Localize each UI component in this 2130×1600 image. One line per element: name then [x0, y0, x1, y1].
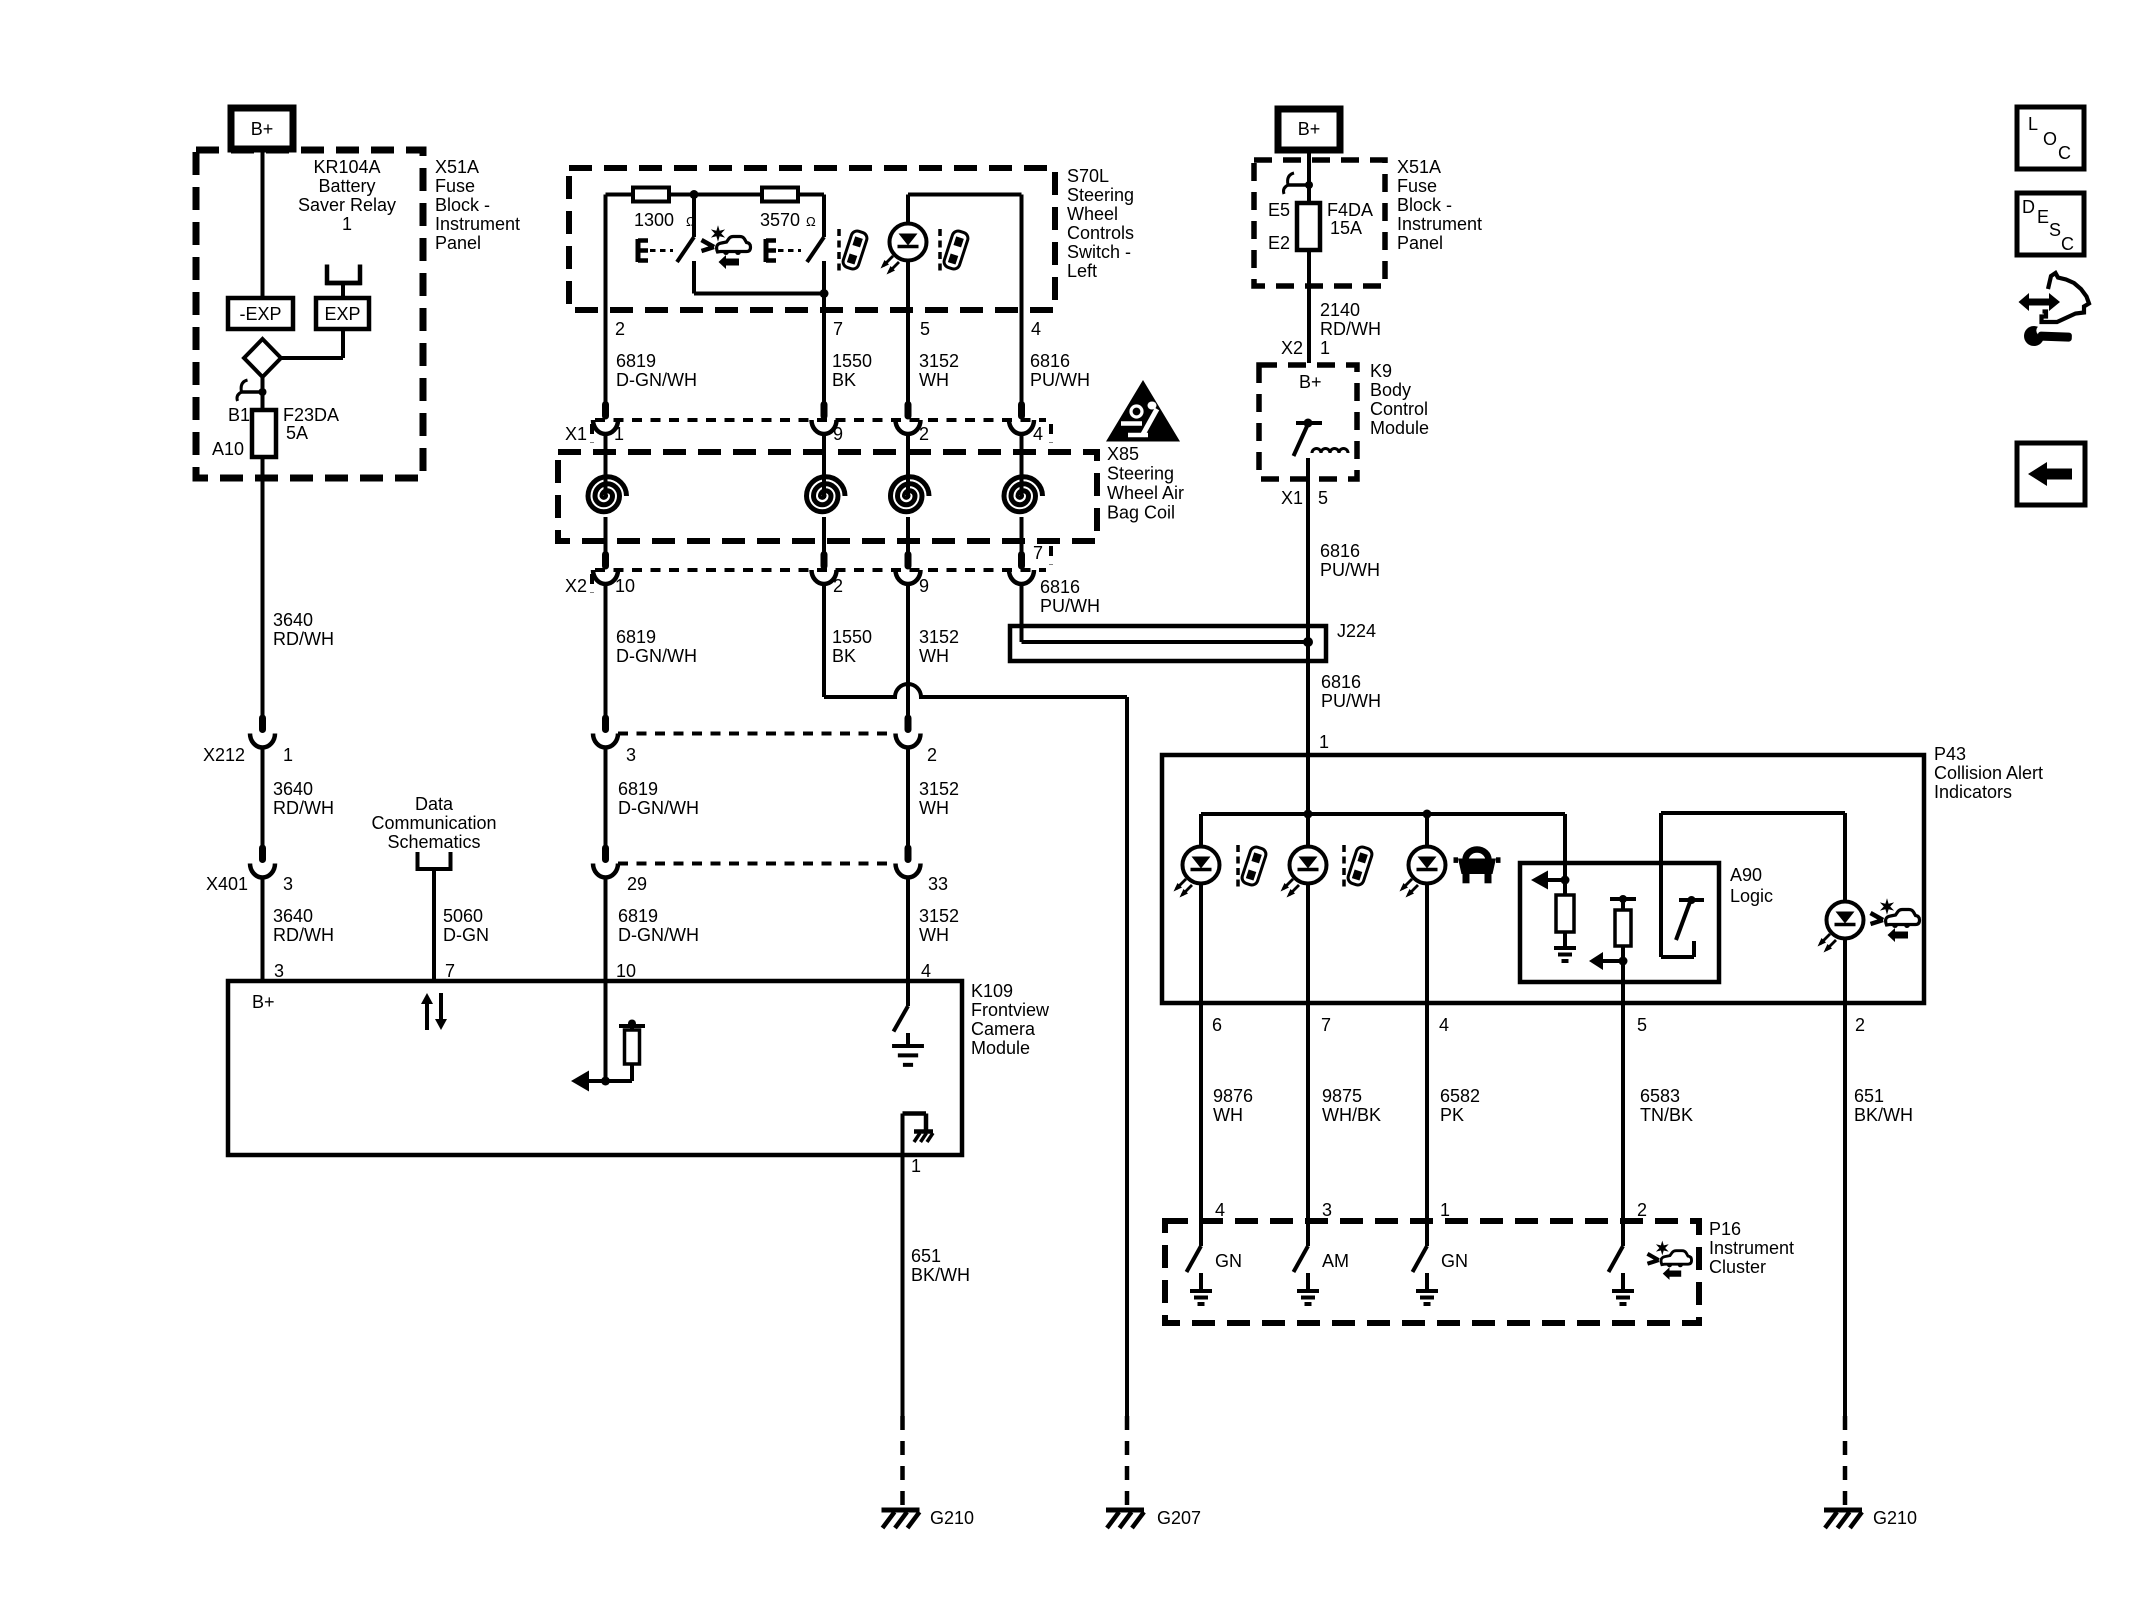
svg-text:-EXP: -EXP	[239, 304, 281, 324]
svg-text:X212: X212	[203, 745, 245, 765]
svg-text:Schematics: Schematics	[387, 832, 480, 852]
svg-text:WH: WH	[1213, 1105, 1243, 1125]
svg-text:F4DA: F4DA	[1327, 200, 1373, 220]
svg-text:Logic: Logic	[1730, 886, 1773, 906]
svg-text:1: 1	[911, 1156, 921, 1176]
svg-text:A10: A10	[212, 439, 244, 459]
svg-text:6819: 6819	[618, 906, 658, 926]
svg-text:4: 4	[1215, 1200, 1225, 1220]
svg-text:7: 7	[445, 961, 455, 981]
svg-text:P43: P43	[1934, 744, 1966, 764]
svg-text:4: 4	[1439, 1015, 1449, 1035]
svg-text:Steering: Steering	[1067, 185, 1134, 205]
svg-text:Collision Alert: Collision Alert	[1934, 763, 2043, 783]
svg-text:Ω: Ω	[806, 214, 816, 229]
svg-text:X85: X85	[1107, 444, 1139, 464]
svg-text:3: 3	[274, 961, 284, 981]
svg-text:2: 2	[1855, 1015, 1865, 1035]
svg-text:5: 5	[920, 319, 930, 339]
svg-text:BK/WH: BK/WH	[1854, 1105, 1913, 1125]
svg-text:6816: 6816	[1030, 351, 1070, 371]
svg-text:4: 4	[921, 961, 931, 981]
svg-text:K109: K109	[971, 981, 1013, 1001]
svg-text:5: 5	[1637, 1015, 1647, 1035]
svg-text:6816: 6816	[1320, 541, 1360, 561]
svg-text:B+: B+	[1299, 372, 1322, 392]
svg-text:5: 5	[1318, 488, 1328, 508]
svg-text:Module: Module	[971, 1038, 1030, 1058]
svg-text:3640: 3640	[273, 779, 313, 799]
svg-text:EXP: EXP	[324, 304, 360, 324]
svg-text:2: 2	[927, 745, 937, 765]
svg-text:X51A: X51A	[435, 157, 479, 177]
svg-text:6583: 6583	[1640, 1086, 1680, 1106]
svg-text:C: C	[2058, 143, 2071, 163]
svg-text:Bag Coil: Bag Coil	[1107, 503, 1175, 523]
svg-text:3: 3	[626, 745, 636, 765]
svg-text:WH: WH	[919, 798, 949, 818]
svg-text:S: S	[2049, 220, 2061, 240]
svg-text:6: 6	[1212, 1015, 1222, 1035]
svg-text:Block -: Block -	[1397, 195, 1452, 215]
svg-text:5060: 5060	[443, 906, 483, 926]
svg-text:3640: 3640	[273, 610, 313, 630]
svg-text:K9: K9	[1370, 361, 1392, 381]
svg-text:3152: 3152	[919, 906, 959, 926]
svg-text:Left: Left	[1067, 261, 1097, 281]
svg-text:E2: E2	[1268, 233, 1290, 253]
svg-text:D-GN/WH: D-GN/WH	[616, 646, 697, 666]
svg-text:Control: Control	[1370, 399, 1428, 419]
svg-text:X401: X401	[206, 874, 248, 894]
svg-text:AM: AM	[1322, 1251, 1349, 1271]
svg-text:X51A: X51A	[1397, 157, 1441, 177]
svg-text:WH: WH	[919, 646, 949, 666]
svg-text:Instrument: Instrument	[1709, 1238, 1794, 1258]
svg-text:KR104A: KR104A	[313, 157, 380, 177]
svg-text:15A: 15A	[1330, 218, 1362, 238]
svg-text:3152: 3152	[919, 779, 959, 799]
svg-text:X2: X2	[565, 576, 587, 596]
svg-text:RD/WH: RD/WH	[273, 629, 334, 649]
svg-text:33: 33	[928, 874, 948, 894]
svg-text:S70L: S70L	[1067, 166, 1109, 186]
svg-text:Cluster: Cluster	[1709, 1257, 1766, 1277]
svg-text:2: 2	[615, 319, 625, 339]
svg-text:9875: 9875	[1322, 1086, 1362, 1106]
svg-text:9876: 9876	[1213, 1086, 1253, 1106]
svg-text:6816: 6816	[1321, 672, 1361, 692]
svg-text:10: 10	[615, 576, 635, 596]
svg-text:7: 7	[833, 319, 843, 339]
svg-text:3640: 3640	[273, 906, 313, 926]
svg-text:P16: P16	[1709, 1219, 1741, 1239]
svg-text:PU/WH: PU/WH	[1040, 596, 1100, 616]
svg-text:3152: 3152	[919, 627, 959, 647]
svg-text:Switch -: Switch -	[1067, 242, 1131, 262]
svg-text:WH: WH	[919, 370, 949, 390]
svg-text:Controls: Controls	[1067, 223, 1134, 243]
svg-text:X1: X1	[565, 424, 587, 444]
svg-text:7: 7	[1321, 1015, 1331, 1035]
svg-text:Fuse: Fuse	[1397, 176, 1437, 196]
svg-text:Body: Body	[1370, 380, 1411, 400]
svg-text:E5: E5	[1268, 200, 1290, 220]
svg-text:Block -: Block -	[435, 195, 490, 215]
svg-text:G207: G207	[1157, 1508, 1201, 1528]
svg-text:BK: BK	[832, 646, 856, 666]
svg-text:Fuse: Fuse	[435, 176, 475, 196]
svg-text:6819: 6819	[616, 627, 656, 647]
svg-text:Saver Relay: Saver Relay	[298, 195, 396, 215]
svg-text:Steering: Steering	[1107, 464, 1174, 484]
svg-text:10: 10	[616, 961, 636, 981]
svg-text:29: 29	[627, 874, 647, 894]
svg-text:D: D	[2022, 197, 2035, 217]
svg-text:J224: J224	[1337, 621, 1376, 641]
svg-text:GN: GN	[1215, 1251, 1242, 1271]
svg-text:Panel: Panel	[435, 233, 481, 253]
svg-text:6582: 6582	[1440, 1086, 1480, 1106]
svg-text:1300: 1300	[634, 210, 674, 230]
svg-text:Communication: Communication	[371, 813, 496, 833]
svg-text:Module: Module	[1370, 418, 1429, 438]
svg-text:4: 4	[1031, 319, 1041, 339]
svg-text:O: O	[2043, 129, 2057, 149]
svg-text:9: 9	[919, 576, 929, 596]
svg-text:X2: X2	[1281, 338, 1303, 358]
svg-text:Camera: Camera	[971, 1019, 1036, 1039]
svg-text:C: C	[2061, 234, 2074, 254]
svg-text:D-GN: D-GN	[443, 925, 489, 945]
svg-text:BK: BK	[832, 370, 856, 390]
svg-text:L: L	[2028, 114, 2038, 134]
svg-text:WH: WH	[919, 925, 949, 945]
svg-text:3152: 3152	[919, 351, 959, 371]
svg-text:1: 1	[283, 745, 293, 765]
svg-text:A90: A90	[1730, 865, 1762, 885]
svg-text:PU/WH: PU/WH	[1321, 691, 1381, 711]
svg-text:2: 2	[1637, 1200, 1647, 1220]
svg-text:WH/BK: WH/BK	[1322, 1105, 1381, 1125]
svg-text:PU/WH: PU/WH	[1030, 370, 1090, 390]
svg-text:Instrument: Instrument	[435, 214, 520, 234]
svg-text:1550: 1550	[832, 351, 872, 371]
svg-text:1: 1	[1319, 732, 1329, 752]
svg-text:D-GN/WH: D-GN/WH	[616, 370, 697, 390]
svg-text:Indicators: Indicators	[1934, 782, 2012, 802]
svg-text:6816: 6816	[1040, 577, 1080, 597]
svg-text:1: 1	[1320, 338, 1330, 358]
svg-text:BK/WH: BK/WH	[911, 1265, 970, 1285]
svg-text:1: 1	[1440, 1200, 1450, 1220]
svg-text:Wheel Air: Wheel Air	[1107, 483, 1184, 503]
svg-text:1: 1	[342, 214, 352, 234]
svg-text:G210: G210	[1873, 1508, 1917, 1528]
svg-text:2140: 2140	[1320, 300, 1360, 320]
svg-text:651: 651	[1854, 1086, 1884, 1106]
svg-text:3: 3	[283, 874, 293, 894]
svg-text:Wheel: Wheel	[1067, 204, 1118, 224]
svg-text:G210: G210	[930, 1508, 974, 1528]
svg-text:Instrument: Instrument	[1397, 214, 1482, 234]
svg-text:RD/WH: RD/WH	[1320, 319, 1381, 339]
svg-text:E: E	[2037, 207, 2049, 227]
svg-text:B+: B+	[251, 119, 274, 139]
svg-text:X1: X1	[1281, 488, 1303, 508]
svg-text:B+: B+	[252, 992, 275, 1012]
svg-text:Frontview: Frontview	[971, 1000, 1050, 1020]
svg-text:PK: PK	[1440, 1105, 1464, 1125]
svg-text:Data: Data	[415, 794, 454, 814]
svg-text:B1: B1	[228, 405, 250, 425]
svg-text:Panel: Panel	[1397, 233, 1443, 253]
svg-text:GN: GN	[1441, 1251, 1468, 1271]
svg-text:3: 3	[1322, 1200, 1332, 1220]
svg-text:PU/WH: PU/WH	[1320, 560, 1380, 580]
svg-text:6819: 6819	[618, 779, 658, 799]
svg-text:6819: 6819	[616, 351, 656, 371]
svg-text:F23DA: F23DA	[283, 405, 339, 425]
svg-text:651: 651	[911, 1246, 941, 1266]
svg-text:Battery: Battery	[318, 176, 375, 196]
svg-text:RD/WH: RD/WH	[273, 925, 334, 945]
svg-text:D-GN/WH: D-GN/WH	[618, 798, 699, 818]
svg-text:7: 7	[1033, 543, 1043, 563]
svg-text:RD/WH: RD/WH	[273, 798, 334, 818]
svg-text:TN/BK: TN/BK	[1640, 1105, 1693, 1125]
svg-text:D-GN/WH: D-GN/WH	[618, 925, 699, 945]
svg-text:1550: 1550	[832, 627, 872, 647]
svg-text:3570: 3570	[760, 210, 800, 230]
svg-text:B+: B+	[1298, 119, 1321, 139]
svg-text:5A: 5A	[286, 423, 308, 443]
